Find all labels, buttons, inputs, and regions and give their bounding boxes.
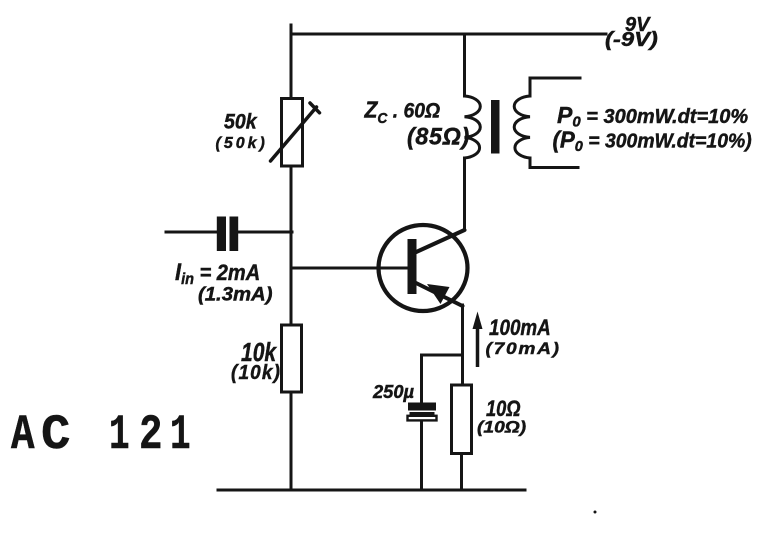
- svg-text:100mA: 100mA: [489, 316, 551, 341]
- svg-text:(P0 = 300mW.dt=10%): (P0 = 300mW.dt=10%): [553, 126, 752, 155]
- svg-text:P0 = 300mW.dt=10%: P0 = 300mW.dt=10%: [557, 102, 748, 131]
- svg-text:(50k): (50k): [216, 135, 268, 152]
- svg-text:(1.3mA): (1.3mA): [198, 284, 272, 305]
- svg-text:1: 1: [170, 407, 191, 463]
- svg-text:2: 2: [139, 408, 163, 463]
- svg-text:(-9V): (-9V): [605, 28, 658, 51]
- svg-text:(85Ω): (85Ω): [407, 124, 470, 150]
- svg-text:(70mA): (70mA): [486, 339, 561, 358]
- svg-text:ZC . 60Ω: ZC . 60Ω: [364, 97, 441, 127]
- svg-text:A: A: [11, 408, 35, 463]
- svg-text:250µ: 250µ: [372, 381, 415, 402]
- svg-text:(10Ω): (10Ω): [477, 418, 526, 437]
- svg-text:C: C: [41, 407, 70, 463]
- svg-text:(10k): (10k): [231, 362, 281, 385]
- svg-text:50k: 50k: [224, 111, 258, 134]
- svg-text:1: 1: [109, 407, 130, 463]
